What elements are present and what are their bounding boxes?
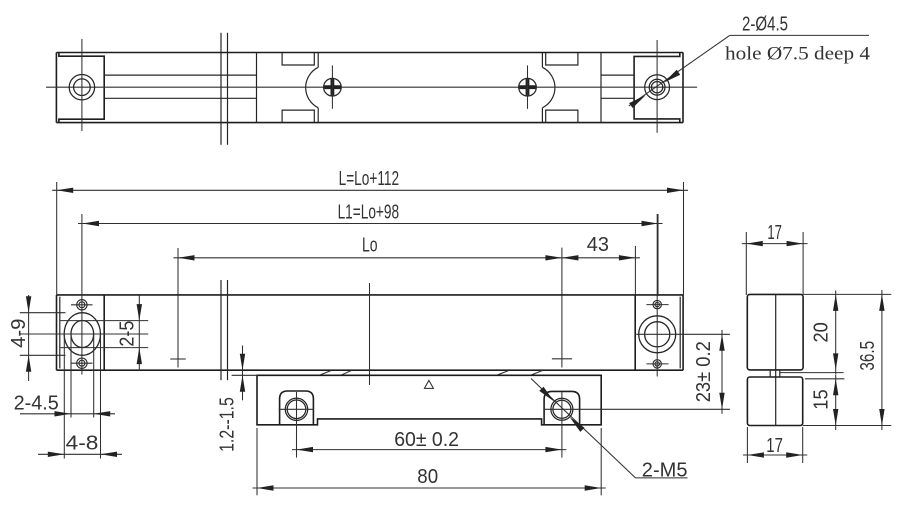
svg-text:43: 43 — [587, 234, 609, 256]
svg-text:17: 17 — [767, 222, 782, 244]
svg-text:15: 15 — [811, 389, 833, 409]
svg-text:17: 17 — [766, 435, 783, 457]
svg-text:4-9: 4-9 — [8, 319, 30, 348]
svg-text:2-4.5: 2-4.5 — [14, 393, 59, 415]
svg-text:60± 0.2: 60± 0.2 — [394, 429, 459, 451]
svg-text:20: 20 — [811, 322, 833, 342]
svg-text:80: 80 — [417, 466, 438, 488]
svg-text:1.2--1.5: 1.2--1.5 — [217, 397, 239, 452]
svg-text:2-Ø4.5: 2-Ø4.5 — [742, 14, 788, 36]
svg-text:hole Ø7.5 deep 4: hole Ø7.5 deep 4 — [725, 44, 871, 65]
svg-text:Lo: Lo — [362, 235, 378, 257]
svg-text:23± 0.2: 23± 0.2 — [693, 341, 715, 402]
svg-text:36.5: 36.5 — [857, 341, 879, 371]
svg-text:L1=Lo+98: L1=Lo+98 — [338, 201, 400, 223]
svg-text:2-M5: 2-M5 — [642, 459, 688, 481]
svg-text:L=Lo+112: L=Lo+112 — [339, 168, 400, 190]
svg-text:2-5: 2-5 — [117, 321, 139, 347]
svg-text:4-8: 4-8 — [66, 432, 99, 454]
